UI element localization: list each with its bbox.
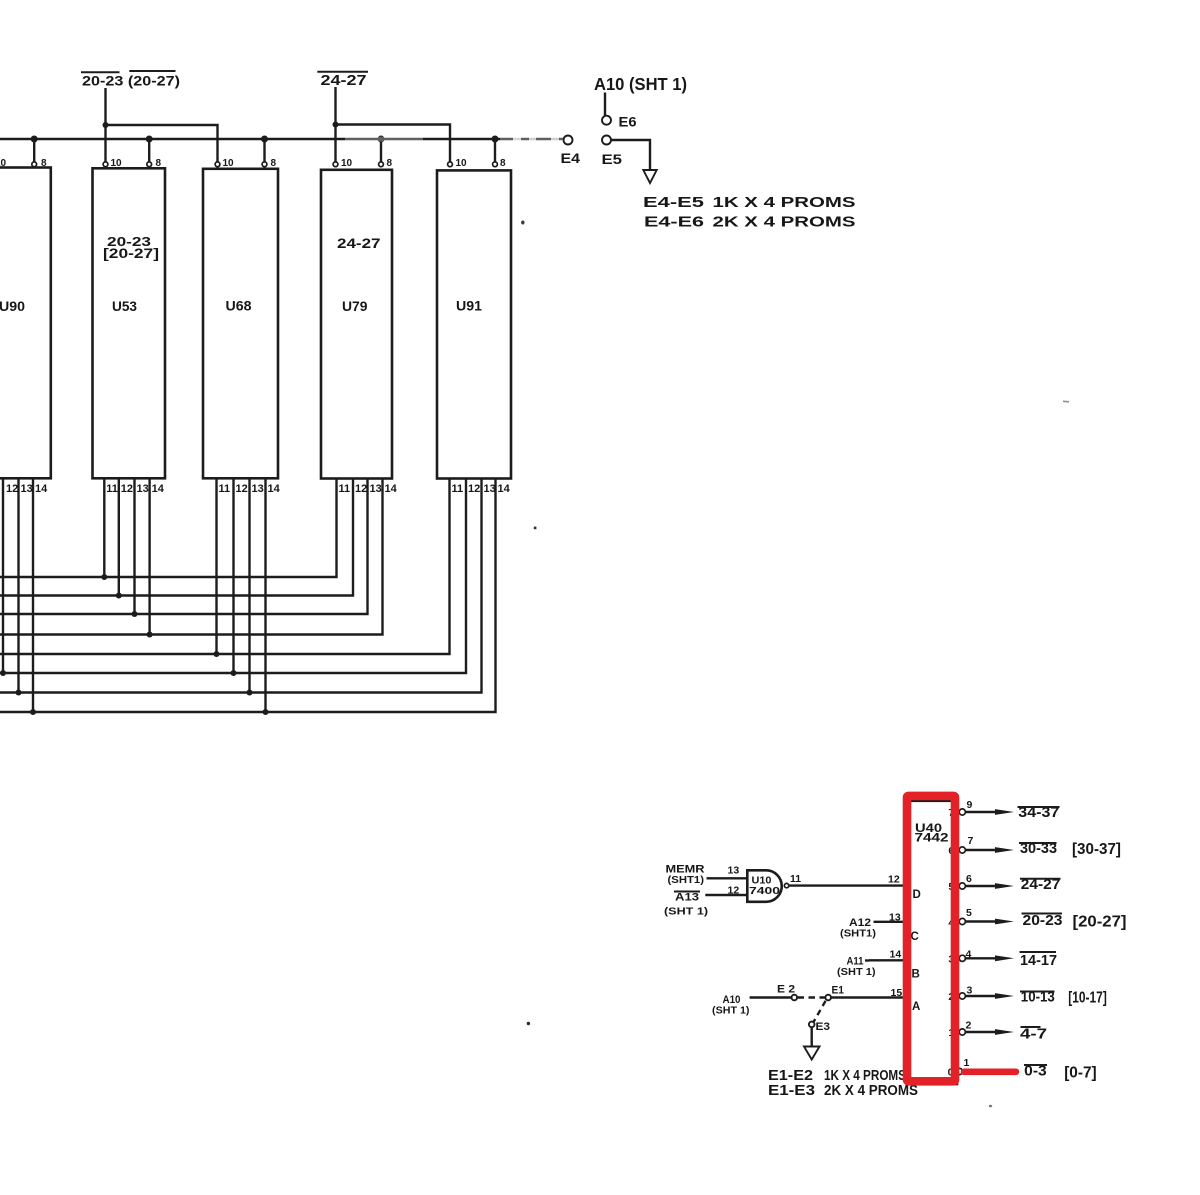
svg-text:2K X 4 PROMS: 2K X 4 PROMS <box>824 1083 918 1099</box>
svg-text:E3: E3 <box>816 1021 831 1033</box>
wire: pin8 stub U68 <box>263 139 265 162</box>
sheet arrow (open triangle) <box>643 170 656 183</box>
data line D2 <box>0 479 368 615</box>
node: junction pin8 U79 <box>378 136 385 143</box>
wire MEMR to U10 pin13 <box>707 877 748 879</box>
svg-text:E5: E5 <box>602 151 623 167</box>
wire E5 to sheet arrow <box>611 140 650 170</box>
pin circle U79 pin10 <box>333 162 338 167</box>
wire A12 to U40 pin13 (C) <box>874 921 910 923</box>
svg-text:12: 12 <box>236 483 248 495</box>
bubble U10 output <box>784 883 788 887</box>
red highlight bar pin1 output <box>964 1069 1016 1076</box>
svg-text:2: 2 <box>966 1020 972 1032</box>
output row pin2 4-7 <box>959 1020 1047 1043</box>
wire: 20-23 jog to U68 pin10 <box>106 125 218 162</box>
svg-text:11: 11 <box>790 873 801 885</box>
speck below red bar <box>989 1105 992 1108</box>
speck near U91 <box>521 221 524 225</box>
svg-text:U91: U91 <box>456 298 482 314</box>
svg-text:E4: E4 <box>561 150 581 166</box>
node U68 pin11 junction <box>214 651 220 657</box>
svg-text:3: 3 <box>967 985 973 997</box>
svg-text:11: 11 <box>339 483 351 495</box>
svg-text:7400: 7400 <box>749 886 781 897</box>
jumper post E5 <box>602 136 611 145</box>
svg-text:12: 12 <box>355 483 367 495</box>
svg-text:1K X 4 PROMS: 1K X 4 PROMS <box>713 195 856 211</box>
svg-text:E 2: E 2 <box>777 984 795 996</box>
svg-text:14-17: 14-17 <box>1020 952 1057 969</box>
svg-text:24-27: 24-27 <box>321 73 367 89</box>
node U68 pin12 junction <box>231 670 237 676</box>
wire: 24-27 vertical to U79 pin10 <box>334 87 336 162</box>
wire A13 to U10 pin12 <box>705 894 747 896</box>
output row pin5 20-23 [20-27] <box>959 907 1126 931</box>
svg-text:13: 13 <box>728 865 740 877</box>
wire U53 pin11 <box>103 479 105 578</box>
jumper post E2 <box>792 995 798 1001</box>
PROM U79 <box>321 170 392 479</box>
wire: pin8 stub U90 <box>33 139 35 162</box>
svg-text:[20-27]: [20-27] <box>103 246 159 261</box>
svg-text:8: 8 <box>271 158 277 169</box>
net label 20-23(20-27) <box>81 71 180 89</box>
jumper post E4 <box>564 136 573 145</box>
speck mid page <box>534 527 537 530</box>
svg-text:[10-17]: [10-17] <box>1068 990 1107 1007</box>
data line D1 <box>0 479 353 596</box>
svg-text:11: 11 <box>452 483 464 495</box>
svg-text:24-27: 24-27 <box>337 235 381 251</box>
wire: chip-select bus to E4 <box>0 138 564 140</box>
svg-text:(SHT 1): (SHT 1) <box>712 1005 750 1017</box>
svg-text:B: B <box>912 969 920 981</box>
pin circle U90 pin8 <box>32 162 37 167</box>
jumper post E6 <box>602 116 611 125</box>
jumper post E3 <box>809 1022 815 1028</box>
dashed wire E1 to E3 <box>814 1001 826 1022</box>
data line D0 <box>0 479 337 578</box>
svg-text:20-23: 20-23 <box>1023 912 1063 929</box>
wire U90 pin13 <box>17 479 19 693</box>
dashed wire E2 to E1 <box>798 996 826 998</box>
svg-text:20-23 (20-27): 20-23 (20-27) <box>82 73 180 89</box>
svg-text:7442: 7442 <box>915 831 949 845</box>
node U68 pin14 junction <box>263 709 269 715</box>
pin circle U91 pin10 <box>448 162 453 167</box>
pin circle U53 pin10 <box>103 162 108 167</box>
sheet arrow (open triangle) lower <box>804 1047 820 1060</box>
wire U68 pin12 <box>232 479 234 674</box>
decoder U40 7442 body <box>909 801 957 1084</box>
svg-text:4: 4 <box>966 949 972 961</box>
svg-text:(SHT 1): (SHT 1) <box>837 966 876 978</box>
svg-text:E6: E6 <box>619 114 637 130</box>
wire: pin8 stub U91 <box>494 139 496 162</box>
svg-text:10: 10 <box>223 158 235 169</box>
svg-text:13: 13 <box>889 911 901 923</box>
svg-text:U68: U68 <box>226 298 252 314</box>
node: junction pin8 U53 <box>146 136 153 143</box>
wire U53 pin14 <box>148 479 150 635</box>
svg-text:14: 14 <box>890 949 902 961</box>
nand gate U10 7400 <box>747 870 781 902</box>
wire A10 to E6 <box>604 93 606 116</box>
svg-text:13: 13 <box>484 483 496 495</box>
wire: pin8 stub U53 <box>148 139 150 162</box>
net label 24-27 <box>317 72 368 89</box>
output row pin9 34-37 <box>959 799 1059 821</box>
svg-text:[0-7]: [0-7] <box>1064 1065 1097 1082</box>
internal output digits 7..0 <box>948 807 955 1079</box>
speck right middle <box>1063 400 1069 403</box>
node U90 pin14 junction <box>30 709 36 715</box>
output row pin7 30-33 [30-37] <box>959 835 1121 858</box>
output row pin6 24-27 <box>959 873 1060 893</box>
svg-text:10: 10 <box>341 158 353 169</box>
svg-text:(SHT 1): (SHT 1) <box>664 906 708 918</box>
svg-text:12: 12 <box>728 885 740 897</box>
svg-text:14: 14 <box>385 483 398 495</box>
wire U68 pin13 <box>248 479 250 693</box>
svg-text:13: 13 <box>21 483 33 495</box>
svg-text:U79: U79 <box>342 298 368 314</box>
svg-text:13: 13 <box>252 483 264 495</box>
svg-text:U90: U90 <box>0 298 25 314</box>
wire U90 pin14 <box>32 479 34 713</box>
svg-text:(SHT1): (SHT1) <box>840 928 876 940</box>
wire U68 pin14 <box>264 479 266 713</box>
svg-text:14: 14 <box>498 483 511 495</box>
wire A10 to E2 <box>750 996 792 998</box>
svg-text:13: 13 <box>137 483 149 495</box>
svg-text:(SHT1): (SHT1) <box>668 874 705 886</box>
output row pin3 10-13 [10-17] <box>959 985 1107 1007</box>
svg-text:4-7: 4-7 <box>1020 1026 1047 1043</box>
svg-text:11: 11 <box>219 483 231 495</box>
svg-text:A: A <box>912 1001 920 1013</box>
node: junction pin8 U91 <box>492 136 499 143</box>
svg-text:1: 1 <box>964 1057 970 1069</box>
wire U53 pin13 <box>133 479 135 615</box>
node U53 pin12 junction <box>116 593 122 599</box>
data line D3 <box>0 479 383 635</box>
svg-text:A10 (SHT 1): A10 (SHT 1) <box>594 74 687 94</box>
node U90 pin12 junction <box>0 670 6 676</box>
svg-text:[20-27]: [20-27] <box>1073 914 1127 931</box>
jumper post E1 <box>825 995 831 1001</box>
svg-text:E4-E5: E4-E5 <box>643 195 704 211</box>
wire: 20-23 vertical to U53 pin10 <box>104 88 106 162</box>
pin circle U91 pin8 <box>493 162 498 167</box>
svg-text:8: 8 <box>500 158 506 169</box>
svg-text:13: 13 <box>370 483 382 495</box>
speck left of E3 arrow <box>527 1022 530 1025</box>
svg-text:E4-E6: E4-E6 <box>644 215 704 231</box>
pin circle U68 pin10 <box>215 162 220 167</box>
svg-text:10: 10 <box>456 158 468 169</box>
svg-text:E1-E3: E1-E3 <box>768 1083 815 1099</box>
wire U10 output to U40 pin12 (D) <box>789 884 909 886</box>
node U53 pin13 junction <box>132 611 138 617</box>
wire U90 pin12 <box>2 479 4 674</box>
svg-text:12: 12 <box>121 483 133 495</box>
data line D7 <box>0 479 496 713</box>
wire: 24-27 jog to U91 pin10 <box>336 125 451 162</box>
wire U68 pin11 <box>215 479 217 655</box>
svg-text:12: 12 <box>468 483 480 495</box>
data line D4 <box>0 479 450 655</box>
svg-text:9: 9 <box>967 799 973 811</box>
data line D5 <box>0 479 466 674</box>
pin circle U79 pin8 <box>379 162 384 167</box>
svg-text:2K X 4 PROMS: 2K X 4 PROMS <box>713 215 856 231</box>
svg-text:11: 11 <box>106 483 118 495</box>
wire E1 to U40 pin15 (A) <box>831 996 909 998</box>
node U53 pin14 junction <box>147 632 153 638</box>
svg-text:15: 15 <box>891 987 903 999</box>
data line D6 <box>0 479 482 693</box>
svg-text:E1: E1 <box>832 985 845 997</box>
node: junction pin8 U68 <box>261 136 268 143</box>
svg-text:7: 7 <box>968 835 974 847</box>
node: junction pin8 U90 <box>31 136 38 143</box>
svg-text:1K X 4 PROMS: 1K X 4 PROMS <box>824 1068 906 1084</box>
svg-text:6: 6 <box>966 873 972 885</box>
svg-text:14: 14 <box>268 483 281 495</box>
wire A11 to U40 pin14 (B) <box>865 959 869 961</box>
output row pin1 0-3 [0-7] <box>956 1057 1096 1082</box>
svg-text:12: 12 <box>888 874 900 886</box>
red highlight box around U40 <box>907 796 955 1081</box>
PROM U91 <box>437 170 511 478</box>
svg-text:A13: A13 <box>675 892 699 904</box>
svg-text:[30-37]: [30-37] <box>1072 841 1121 858</box>
PROM U90 <box>0 168 51 479</box>
pin circle U53 pin8 <box>147 162 152 167</box>
node: junction 24-27 jog <box>333 122 339 128</box>
svg-text:14: 14 <box>152 483 165 495</box>
svg-text:8: 8 <box>387 158 393 169</box>
net label A13 (SHT 1) <box>664 892 708 918</box>
wire U53 pin12 <box>118 479 120 596</box>
svg-text:C: C <box>911 931 919 943</box>
output row pin4 14-17 <box>959 949 1057 970</box>
svg-text:12: 12 <box>6 483 18 495</box>
node U90 pin13 junction <box>16 690 22 696</box>
svg-text:14: 14 <box>35 483 48 495</box>
PROM U68 <box>203 169 278 479</box>
PROM U53 <box>93 168 166 478</box>
svg-text:D: D <box>913 889 921 901</box>
wire E3 to sheet arrow <box>811 1027 813 1046</box>
scan fade on bus <box>345 137 423 142</box>
wire: pin8 stub U79 <box>380 139 382 162</box>
pin circle U68 pin8 <box>262 162 267 167</box>
node: junction 20-23 jog <box>103 122 109 128</box>
node U68 pin13 junction <box>247 690 253 696</box>
svg-text:E1-E2: E1-E2 <box>768 1068 813 1084</box>
svg-text:U53: U53 <box>112 298 137 314</box>
node U53 pin11 junction <box>101 574 107 580</box>
svg-text:5: 5 <box>966 907 972 919</box>
